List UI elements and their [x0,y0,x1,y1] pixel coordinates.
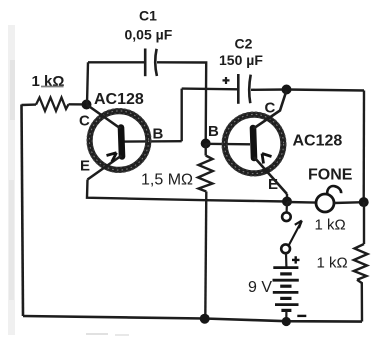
wire: Q2 emitter drop to node [286,194,288,202]
label C2 [235,36,253,52]
label FONE [308,167,353,184]
wire: C2 right to junction [251,88,287,91]
transistor Q2 AC128 (PNP) [222,91,287,195]
svg-text:FONE: FONE [308,167,353,184]
label: battery − [297,315,306,317]
wire: Q1 emitter down then long horizontal to Q2 emitter node [87,180,287,202]
node A: junction Q1 collector / R1 / C1 [82,100,92,110]
label: 0,05 µF [125,27,173,43]
svg-text:B: B [208,123,219,140]
label: Q1 pin C [79,113,90,130]
resistor 1 kΩ (right, vertical) [354,202,368,322]
wire: C1 left vertical drop [87,62,88,104]
node: Q2 base / C1 / R 1.5M [201,139,211,149]
label AC128 (Q1) [94,91,144,108]
label: Q2 pin E [268,176,278,193]
svg-text:1 kΩ: 1 kΩ [317,255,348,272]
node: Q2 emitter / fone / switch [282,197,292,207]
label AC128 (Q2) [293,133,343,150]
Q2 emitter lead [254,157,287,194]
svg-text:E: E [80,158,90,175]
transistor Q1 AC128 (PNP) [87,105,151,180]
node: C2 / Q2 collector / right rail [282,85,292,95]
label: Q1 pin B [153,126,164,143]
svg-text:9 V: 9 V [248,279,272,296]
node: bottom rail / 1.5M branch [200,314,210,324]
Q1 collector lead [87,105,121,129]
Q1 base bar [121,128,122,157]
earphone FONE [287,186,364,212]
svg-text:1 kΩ: 1 kΩ [32,73,65,90]
node: fone / right rail [359,197,369,207]
wire: top right horizontal (C2 node to right rail) [287,90,365,91]
label: 9 V [248,279,272,296]
battery B1 9 V [273,253,299,321]
wire: left vertical rail [22,105,24,317]
Q1 emitter arrow (points into base bar, PNP) [107,153,117,162]
Q2 emitter arrow (points into base bar, PNP) [262,154,272,164]
svg-text:AC128: AC128 [94,91,144,108]
resistor R 1 kΩ (left, horizontal) [22,98,87,112]
svg-text:C: C [79,113,90,130]
wire: C1 left horizontal [88,61,145,63]
label: C2 polarity + [223,77,230,84]
label: Q1 pin E [80,158,90,175]
svg-text:C1: C1 [139,8,157,24]
wire: Q1 base horizontal [124,140,182,143]
svg-text:C: C [265,100,276,117]
label: 1,5 MΩ [141,172,193,189]
label: 1 kΩ (fone) [315,217,346,234]
label: Q2 pin C [265,100,276,117]
label: 150 µF [219,52,263,68]
switch S1 (open, with arrow) [281,202,302,253]
svg-text:AC128: AC128 [293,133,343,150]
Q2 collector lead [254,91,287,129]
capacitor C2 [238,74,250,104]
svg-text:1 kΩ: 1 kΩ [315,217,346,234]
resistor 1,5 MΩ (vertical) [198,144,213,319]
svg-text:0,05 µF: 0,05 µF [125,27,173,43]
svg-text:B: B [153,126,164,143]
wire: Q1 base riser up to C2 [180,89,182,142]
label: Q2 pin B [208,123,219,140]
svg-text:C2: C2 [235,36,253,52]
wire: C1 right horizontal then down to Q2 base node [157,62,206,143]
label: battery + [292,256,300,263]
Q1 emitter lead [88,156,122,180]
node: battery / bottom rail [282,317,291,326]
capacitor C1 [145,49,157,77]
label: 1 kΩ (left resistor) [32,73,65,90]
wire: Q2 base horizontal [206,143,250,146]
label C1 [139,8,157,24]
wire: bottom rail [23,316,362,322]
svg-text:E: E [268,176,278,193]
svg-text:1,5 MΩ: 1,5 MΩ [141,172,193,189]
Q2 base bar [253,128,254,158]
scan artifact: left edge gray streaks [8,25,129,336]
svg-text:150 µF: 150 µF [219,52,263,68]
wire: right rail upper (C2 node down to fone node) [363,91,366,203]
wire: C2 left horizontal [182,87,238,90]
label: 1 kΩ (right resistor) [317,255,348,272]
